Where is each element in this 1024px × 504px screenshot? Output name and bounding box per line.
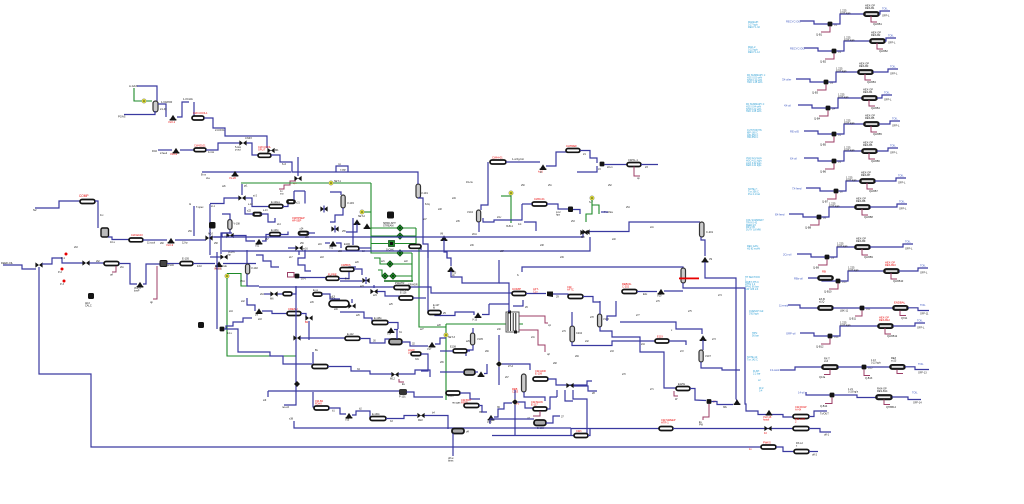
label fx xyxy=(517,274,520,277)
label AFT- xyxy=(533,287,539,294)
svg-text:VLV-5: VLV-5 xyxy=(214,267,222,271)
column V-103 xyxy=(341,195,345,208)
svg-text:V-101: V-101 xyxy=(421,191,428,195)
heat exchanger E-125 xyxy=(676,387,690,391)
wire K-100 in xyxy=(193,102,195,117)
mixer B1 xyxy=(828,22,833,27)
heat exchanger E-122 xyxy=(253,213,262,216)
valve VLV-17 xyxy=(429,342,436,348)
svg-text:OFF-L: OFF-L xyxy=(890,151,898,155)
energy P-100 xyxy=(153,266,157,299)
label b2 xyxy=(359,408,362,411)
label A-GAS xyxy=(129,84,138,88)
wire D-102 feed xyxy=(396,330,398,339)
wire V-106 feed xyxy=(599,301,601,314)
label M12 xyxy=(390,378,395,381)
label 25 xyxy=(443,312,446,315)
wire green vertical xyxy=(370,183,372,244)
label Q-B10 xyxy=(824,290,832,294)
energy MIX-13 xyxy=(279,181,296,189)
svg-text:E-105: E-105 xyxy=(182,257,189,261)
svg-text:HT SECTION:1WABT 375 CLHSV 1.2: HT SECTION:1WABT 375 CLHSV 1.2PPH2 95 ba… xyxy=(745,276,760,291)
wire green split 1 xyxy=(371,227,416,229)
heat exchanger E-102 xyxy=(258,154,271,158)
label S-T xyxy=(589,201,594,204)
svg-text:V10: V10 xyxy=(657,295,662,298)
svg-text:14-oil: 14-oil xyxy=(798,391,805,395)
label CWD-01 xyxy=(534,197,545,201)
svg-text:OFF-L: OFF-L xyxy=(905,247,913,251)
valve VLV-23 xyxy=(448,266,455,272)
wire upper stub xyxy=(298,250,311,271)
stream label 13-resid xyxy=(770,368,780,372)
wire T13 mid2 xyxy=(867,366,891,368)
stream label out B5 xyxy=(892,117,898,121)
stream label out B2 xyxy=(888,34,894,38)
label q7 xyxy=(527,417,530,420)
wire link drop xyxy=(304,191,306,204)
label SET-3 xyxy=(448,336,456,339)
heat exchanger HX-B6 xyxy=(862,149,877,153)
label s31 xyxy=(531,337,535,339)
svg-text:sf: sf xyxy=(540,171,542,174)
wire B3 to exchanger xyxy=(829,72,859,82)
label TOIL xyxy=(912,392,918,395)
svg-text:3-MIX: 3-MIX xyxy=(245,136,252,140)
wire green drop xyxy=(445,324,447,400)
wire stub v xyxy=(352,218,354,245)
wire VLV-22 feed xyxy=(325,242,330,244)
wire long vertical x296 xyxy=(284,286,296,405)
label s70 xyxy=(622,374,626,376)
heat exchanger CWD-1 xyxy=(532,202,547,206)
wire E-106 out xyxy=(359,247,371,249)
svg-text:V17: V17 xyxy=(427,348,432,351)
mixer MIX-12 xyxy=(391,372,398,377)
heat exchanger E-105 xyxy=(180,262,193,266)
heat exchanger small xyxy=(313,293,322,297)
label CW-E101 xyxy=(194,144,206,148)
label E-120ex xyxy=(271,201,281,204)
wire valve drop xyxy=(346,224,357,232)
wire L1 end xyxy=(809,429,831,433)
svg-text:HEX-OPRES-B10: HEX-OPRES-B10 xyxy=(885,261,896,268)
label duty B6 xyxy=(844,146,855,153)
valve K-202 xyxy=(547,292,553,298)
note text xyxy=(747,356,758,361)
label s46 xyxy=(334,309,338,311)
wire product B8 xyxy=(870,204,907,207)
energy stream B8-Q xyxy=(810,220,819,226)
label HEX B10 xyxy=(885,261,896,268)
wire VLV-4 riser xyxy=(143,264,160,284)
column V-108 xyxy=(228,220,232,230)
valve VLV-14 xyxy=(478,371,485,377)
stream label RECYC-OI2 xyxy=(790,47,805,51)
heat exchanger CBD-1 xyxy=(340,268,354,272)
label CW-MID xyxy=(400,289,409,294)
heat exchanger CATREF xyxy=(566,149,580,153)
label 10-s xyxy=(110,241,116,244)
energy stream HX-B9 xyxy=(862,249,868,255)
svg-text:E119: E119 xyxy=(657,335,663,339)
wire E-108 feed xyxy=(440,350,453,352)
label V-108 xyxy=(234,223,241,226)
heat exchanger E-117 xyxy=(533,407,547,411)
heat exchanger CRESU xyxy=(287,312,301,316)
label E106 xyxy=(344,243,350,246)
label QHXB14 xyxy=(886,406,896,409)
wire VLV-22 out xyxy=(336,243,341,248)
svg-text:RE-oil5: RE-oil5 xyxy=(790,130,799,134)
svg-text:6-cl: 6-cl xyxy=(282,163,286,166)
wire J-7 out xyxy=(712,402,734,405)
label s57 xyxy=(265,239,269,241)
wire VLV-12 out xyxy=(573,210,580,215)
wire green recycle main xyxy=(241,182,371,184)
compressor K-100 xyxy=(192,116,204,120)
mixer B5 xyxy=(832,132,837,137)
label d4 xyxy=(466,431,469,434)
wire J-6 east xyxy=(518,402,533,408)
svg-text:12-lp: 12-lp xyxy=(182,242,188,245)
svg-text:QHXB9: QHXB9 xyxy=(864,255,873,259)
mixer MIX-16 xyxy=(295,245,302,250)
svg-text:TOIL: TOIL xyxy=(890,65,896,69)
heat exchanger HX-B8 xyxy=(855,205,870,209)
label st9 xyxy=(263,399,267,402)
svg-text:M6: M6 xyxy=(270,298,274,301)
label 13-h xyxy=(197,265,203,268)
wire MIX-3 out xyxy=(213,233,233,237)
column C-201 xyxy=(700,222,705,237)
wire T11 lead xyxy=(788,305,818,308)
wire to diamond xyxy=(484,364,487,374)
svg-text:V104: V104 xyxy=(467,211,473,214)
svg-text:2Cx-oil: 2Cx-oil xyxy=(783,253,792,257)
wire into valve row xyxy=(210,256,221,258)
svg-text:E-123x: E-123x xyxy=(271,229,279,232)
label CW-E103 xyxy=(131,233,143,237)
valve VLV-11 xyxy=(540,164,547,170)
heat exchanger E-118 xyxy=(574,434,588,438)
wire E-125 out xyxy=(690,389,706,401)
label YY xyxy=(516,403,520,406)
label CW-ROW xyxy=(795,405,807,412)
wire E-119 out xyxy=(669,341,686,345)
wire L2 tail xyxy=(809,451,818,453)
wire dark green bar xyxy=(384,280,413,282)
mixer MIX-2 xyxy=(239,140,246,145)
wire MIX-16 down xyxy=(298,251,300,255)
wire V-101 bottoms xyxy=(418,198,428,258)
label s14 xyxy=(277,224,281,226)
label x1a xyxy=(206,178,210,180)
label qm xyxy=(293,182,296,185)
wire C-204 bottoms xyxy=(572,341,655,346)
label 2-COOL xyxy=(215,128,225,132)
column C-203 xyxy=(522,374,527,392)
wire down east 2 xyxy=(683,283,745,399)
label VLV-5 xyxy=(214,267,222,271)
svg-text:V22: V22 xyxy=(329,247,334,250)
label 1-VAPOR xyxy=(161,100,172,104)
wire MIX-14 out xyxy=(246,198,270,207)
heat exchanger HX-B2 xyxy=(870,39,885,43)
wire B6 to exchanger xyxy=(837,151,863,161)
wire staircase left xyxy=(226,318,252,329)
wire E-112 out xyxy=(360,339,390,344)
splitter TEE-4 xyxy=(397,250,403,256)
label s52 xyxy=(608,185,612,187)
wire E-121 feed xyxy=(293,191,295,200)
valve on L1 xyxy=(764,426,771,431)
label P100 xyxy=(168,264,174,267)
label ADJ xyxy=(85,302,92,308)
wire row A out xyxy=(809,411,827,417)
svg-text:XLB-1: XLB-1 xyxy=(506,225,514,228)
svg-text:C-201: C-201 xyxy=(706,230,714,234)
label 24-r xyxy=(497,216,502,219)
label duty B4 xyxy=(838,93,849,100)
svg-text:PGAS: PGAS xyxy=(118,115,126,119)
note text xyxy=(745,276,760,291)
logic block ADJ-1 xyxy=(209,222,216,229)
label E115 xyxy=(448,395,454,398)
wire LNG top feed xyxy=(508,304,510,312)
svg-text:FD2: FD2 xyxy=(152,149,157,153)
label T-spec xyxy=(196,206,204,209)
wire bottom stair xyxy=(340,312,372,322)
label 8-liq xyxy=(425,203,430,206)
svg-text:TOIL: TOIL xyxy=(920,264,926,268)
wire T11 out xyxy=(908,308,929,311)
wire VLV-18 out xyxy=(494,403,512,417)
label E2x xyxy=(643,293,648,296)
svg-text:11-cool: 11-cool xyxy=(147,242,155,245)
wire B2 b xyxy=(352,411,370,418)
wire E-126 out xyxy=(413,297,426,299)
label off-w xyxy=(448,457,454,463)
svg-text:Q-B13: Q-B13 xyxy=(865,377,873,380)
wire col V-102 feed xyxy=(246,250,248,264)
wire CWH-1 out xyxy=(506,161,540,163)
heat exchanger E-128 xyxy=(372,321,388,325)
valve VLV-4 xyxy=(137,282,144,288)
wire comp2 feed xyxy=(411,287,513,293)
heat exchanger HX-B7 xyxy=(860,179,875,183)
wire dp line xyxy=(193,206,195,236)
label s26 xyxy=(356,315,360,317)
label 7-HP xyxy=(340,169,346,172)
wire green down to unit xyxy=(416,244,446,328)
label Q-B12 xyxy=(816,345,824,349)
svg-text:QHXB4: QHXB4 xyxy=(871,106,880,110)
energy stream B10-Q xyxy=(829,284,838,290)
drum D-102 xyxy=(389,339,402,345)
svg-text:OFF-L: OFF-L xyxy=(890,72,898,76)
label V-13 xyxy=(472,319,478,322)
wire to LNG top xyxy=(499,283,509,304)
wire to header xyxy=(292,287,296,294)
label Q-B11 xyxy=(849,318,857,321)
wire E-114 out xyxy=(328,367,392,375)
label RX-L2 xyxy=(796,442,803,447)
label VLV-16 xyxy=(763,415,772,422)
mixer B14 xyxy=(830,393,835,398)
wire stub 2 xyxy=(412,246,421,250)
svg-text:M22: M22 xyxy=(418,419,423,422)
label C-201 xyxy=(706,230,714,234)
label QHX B2 xyxy=(879,49,888,53)
svg-text:15-b: 15-b xyxy=(240,280,246,283)
mixer MIX-10 xyxy=(566,383,573,388)
heat exchanger CWH-1 xyxy=(490,160,506,164)
mixer MIX-19 xyxy=(362,278,369,283)
label QHX B10 xyxy=(893,279,904,283)
label GR-HDR xyxy=(408,284,418,289)
svg-text:E-128x: E-128x xyxy=(374,317,382,320)
svg-text:x21: x21 xyxy=(296,202,301,205)
label out B5 xyxy=(892,124,900,128)
label CWH-01 xyxy=(492,156,503,160)
mixer MIX-20 xyxy=(370,289,377,294)
label m16 xyxy=(303,248,308,251)
svg-text:HEX-OPRES-B9: HEX-OPRES-B9 xyxy=(856,237,866,244)
label E-105 xyxy=(182,257,189,261)
wire E-104 dip xyxy=(119,264,137,285)
label 1.21 xyxy=(848,388,859,394)
label Bx xyxy=(315,349,319,352)
label Lxx/ xyxy=(556,211,561,217)
svg-text:13-resid: 13-resid xyxy=(770,368,780,372)
label s25 xyxy=(389,304,393,306)
label s30 xyxy=(497,329,501,331)
svg-text:HEX-OPRES-B3: HEX-OPRES-B3 xyxy=(859,62,869,69)
label out B2 xyxy=(888,41,896,45)
svg-text:Q-B1: Q-B1 xyxy=(816,33,823,37)
energy stream HX-B12 xyxy=(885,328,891,334)
wire row A lead xyxy=(745,399,766,415)
energy stream B2-Q xyxy=(825,54,834,60)
wire V-103 bottoms xyxy=(330,208,343,222)
svg-text:HEX-OPRES-B1: HEX-OPRES-B1 xyxy=(865,4,875,11)
mixer B2 xyxy=(832,49,837,54)
svg-text:P-1: P-1 xyxy=(61,257,66,260)
wire product B3 xyxy=(873,69,898,72)
valve VLV-7 xyxy=(256,308,263,314)
label s38 xyxy=(540,245,544,247)
wire stub xyxy=(264,293,271,295)
label V10 xyxy=(657,295,662,298)
label VLV-2 xyxy=(170,152,178,156)
heat exchanger E-116 xyxy=(464,404,479,408)
label QHX B5 xyxy=(873,132,882,136)
svg-text:V25: V25 xyxy=(345,419,350,422)
label out B7 xyxy=(898,181,906,185)
svg-text:CWx: CWx xyxy=(576,429,582,433)
wire C-204 feed xyxy=(571,312,573,326)
label B9 xyxy=(831,256,835,260)
wire E-101 out xyxy=(206,143,240,150)
wire east stub xyxy=(607,301,616,321)
wire VLV-10 out xyxy=(664,290,683,292)
label s-13 xyxy=(263,210,268,212)
label COMP xyxy=(512,287,521,291)
label 21 xyxy=(583,153,586,156)
wire L1 mid xyxy=(571,428,659,430)
logic block SPRDSHT xyxy=(387,212,394,219)
wire down-1 xyxy=(524,222,536,231)
label CW-BOT xyxy=(461,398,472,405)
label Q-B8 xyxy=(805,226,812,230)
label CWXL-1 xyxy=(628,158,638,162)
energy stream B9-Q xyxy=(818,260,827,266)
wire join A xyxy=(736,399,739,404)
wire big loop bottom xyxy=(39,267,761,447)
label s64 xyxy=(260,294,264,296)
valve VLV-18 xyxy=(488,415,495,421)
note text xyxy=(752,332,759,337)
mixer MIX-8 xyxy=(582,229,589,234)
label 2-LIQ xyxy=(160,107,167,111)
svg-text:st-2: st-2 xyxy=(253,195,258,198)
svg-text:T-spec: T-spec xyxy=(196,206,204,209)
wire T14 mid xyxy=(835,395,877,398)
label V24 xyxy=(387,333,392,336)
svg-text:CWXL-1: CWXL-1 xyxy=(628,158,638,162)
wire V-102 out xyxy=(247,274,259,286)
wire y172 feeder xyxy=(202,171,291,173)
label 2-feed xyxy=(160,152,168,155)
label 1-XCHG xyxy=(183,97,193,101)
heat exchanger E-108 xyxy=(453,349,467,353)
label Q-B13 xyxy=(865,377,873,380)
label QHX B4 xyxy=(871,106,880,110)
wire green split 4 xyxy=(371,244,412,253)
wire D-101 feed xyxy=(440,371,464,373)
svg-text:4-mix: 4-mix xyxy=(208,151,215,154)
wire V-100 overhead xyxy=(158,104,166,117)
wire product B7 xyxy=(875,178,906,181)
label FWHTR xyxy=(395,281,404,285)
label s55 xyxy=(342,231,346,233)
svg-text:V21: V21 xyxy=(255,245,260,248)
svg-text:VLV-2: VLV-2 xyxy=(170,152,178,156)
wire B8 to exchanger xyxy=(822,207,856,217)
junction diamond J-4 xyxy=(496,361,502,367)
heat exchanger L2-end xyxy=(794,450,809,454)
energy stream B5-Q xyxy=(825,137,834,143)
svg-text:Q-B10: Q-B10 xyxy=(824,290,832,294)
wire T11 mid xyxy=(833,307,860,309)
valve VLV-1 xyxy=(170,115,177,121)
wire feed B4 xyxy=(798,105,826,108)
svg-text:C204: C204 xyxy=(576,332,583,335)
label 1x xyxy=(749,448,752,451)
svg-text:CWBDS: CWBDS xyxy=(341,263,351,267)
valve small1 xyxy=(354,219,361,225)
svg-text:1-XCHG: 1-XCHG xyxy=(183,97,193,101)
svg-text:TOIL: TOIL xyxy=(890,144,896,148)
wire green split 3 xyxy=(371,243,388,245)
label QHX B9 xyxy=(864,255,873,259)
label Q-B9 xyxy=(813,266,820,270)
svg-text:16-v: 16-v xyxy=(301,278,307,281)
label out B8 xyxy=(899,207,907,211)
svg-text:V-102: V-102 xyxy=(251,266,258,270)
wire green-start stub xyxy=(241,184,243,195)
